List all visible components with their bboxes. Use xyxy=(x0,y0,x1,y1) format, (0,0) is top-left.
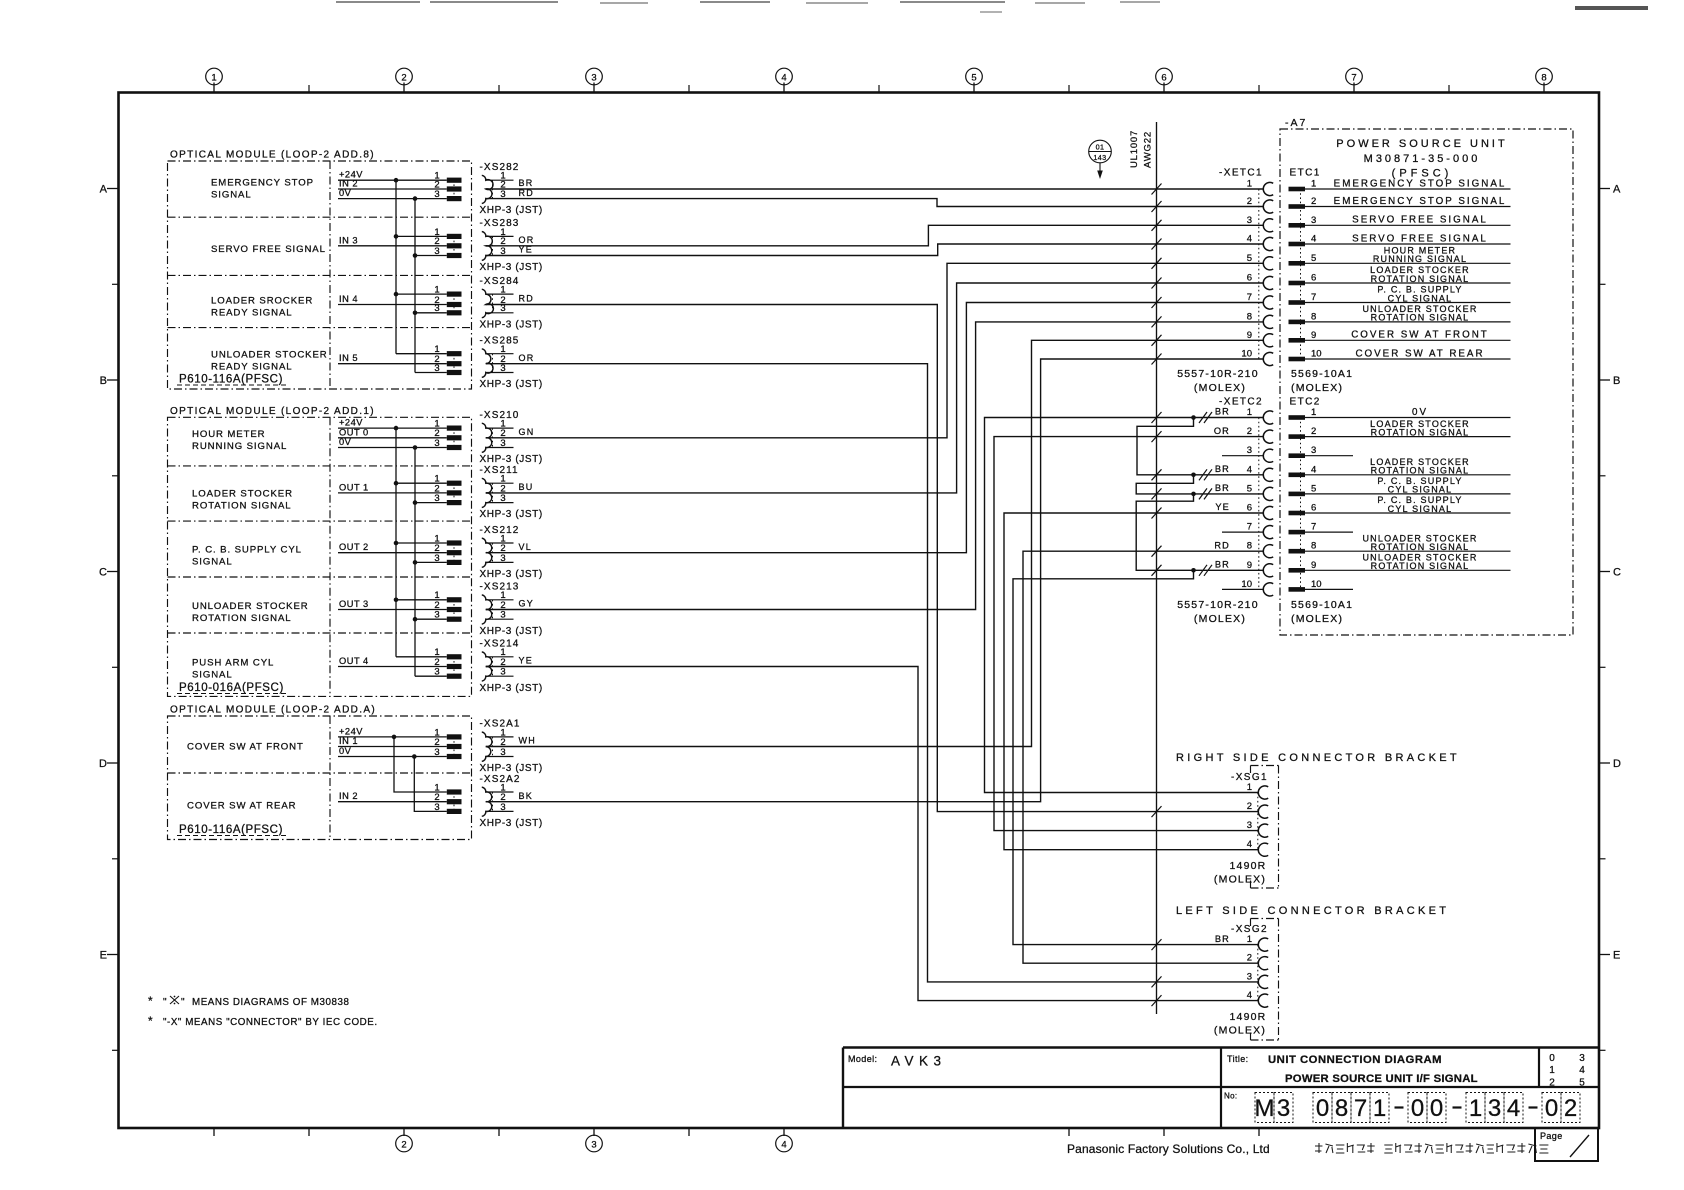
module box OPTICAL MODULE (LOOP-2 ADD.A) xyxy=(168,716,472,840)
stub pin 1 XS2A1 xyxy=(486,736,514,738)
stub pin 1 XS2A2 xyxy=(486,791,514,793)
wire GY XS213.2 to XETC1.8 xyxy=(486,322,1264,610)
stub pin 1 XS211 xyxy=(486,482,514,484)
title block frame xyxy=(843,1046,1599,1048)
svg-text:SIGNAL: SIGNAL xyxy=(211,189,252,200)
svg-text:UNLOADER STOCKER: UNLOADER STOCKER xyxy=(211,350,328,361)
module2 pin rects XS211 side xyxy=(447,481,462,486)
wire BR twisted pair XETC2.4 xyxy=(1137,418,1263,475)
svg-text:3: 3 xyxy=(1579,1053,1585,1064)
stub pin 1 XS282 xyxy=(486,179,514,181)
svg-text:OPTICAL MODULE (LOOP-2 ADD.1): OPTICAL MODULE (LOOP-2 ADD.1) xyxy=(170,406,375,417)
module1 pin rects XS285 side xyxy=(447,351,462,356)
wire XS211 pin3 feed xyxy=(415,502,447,504)
wire 0V module2 xyxy=(338,447,447,449)
svg-text:-A7: -A7 xyxy=(1285,117,1307,129)
svg-text:10: 10 xyxy=(1241,349,1252,360)
page reference symbol 01/143 xyxy=(1089,140,1112,163)
svg-text:(MOLEX): (MOLEX) xyxy=(1291,382,1343,394)
wire XS214 pin1 feed xyxy=(396,656,447,658)
svg-text:COVER SW AT REAR: COVER SW AT REAR xyxy=(187,801,296,812)
svg-text:8: 8 xyxy=(1247,541,1252,552)
svg-text:01: 01 xyxy=(1096,143,1105,152)
wire OUT 3 module2 xyxy=(338,609,447,611)
svg-text:XHP-3 (JST): XHP-3 (JST) xyxy=(480,509,543,520)
svg-text:2: 2 xyxy=(1311,426,1316,437)
svg-text:9: 9 xyxy=(1311,560,1316,571)
connector ETC2 signal lines xyxy=(1305,417,1511,419)
svg-text:ROTATION SIGNAL: ROTATION SIGNAL xyxy=(192,613,292,624)
svg-text:4: 4 xyxy=(1247,234,1252,245)
svg-text:1: 1 xyxy=(1311,179,1316,190)
svg-text:0: 0 xyxy=(1316,1095,1329,1122)
svg-text:4: 4 xyxy=(1579,1065,1585,1076)
wire WH XS2A1.2 to XETC1.9 xyxy=(486,340,1264,746)
svg-text:XHP-3 (JST): XHP-3 (JST) xyxy=(480,818,543,829)
svg-text:1: 1 xyxy=(211,72,216,83)
wire OUT 2 module2 xyxy=(338,552,447,554)
svg-text:(MOLEX): (MOLEX) xyxy=(1194,382,1246,394)
svg-text:RIGHT SIDE CONNECTOR BRACKE: RIGHT SIDE CONNECTOR BRACKET xyxy=(1176,752,1460,764)
svg-text:5557-10R-210: 5557-10R-210 xyxy=(1177,368,1259,380)
svg-text:LOADER STOCKER: LOADER STOCKER xyxy=(192,489,293,500)
svg-text:XHP-3 (JST): XHP-3 (JST) xyxy=(480,683,543,694)
wire GN XS210.2 to XETC1.5 xyxy=(486,263,1264,438)
wire BR twisted pair to XSG2.1 xyxy=(1013,570,1258,944)
svg-text:4: 4 xyxy=(1247,464,1252,475)
svg-text:4: 4 xyxy=(1247,839,1252,850)
svg-text:A: A xyxy=(1613,184,1621,196)
scan artifact top edge xyxy=(336,1,420,3)
cable crossing slash XSG1.2 xyxy=(1152,806,1162,817)
svg-text:9: 9 xyxy=(1247,330,1252,341)
stub pin 3 XS2A2 xyxy=(486,810,514,812)
wire YE XS283.3 to XETC1.4 xyxy=(486,244,1264,256)
wire XS213 pin1 feed xyxy=(396,599,447,601)
svg-text:6: 6 xyxy=(1247,273,1252,284)
svg-text:EMERGENCY STOP: EMERGENCY STOP xyxy=(211,178,314,189)
svg-text:VL: VL xyxy=(519,542,533,552)
svg-text:3: 3 xyxy=(434,747,439,758)
stub pin 3 XS284 xyxy=(486,312,514,314)
svg-text:0: 0 xyxy=(1545,1095,1558,1122)
svg-text:COVER SW AT REAR: COVER SW AT REAR xyxy=(1355,348,1484,359)
svg-text:5: 5 xyxy=(1579,1077,1585,1088)
wire RD XETC2.8 to XSG2.2 xyxy=(1023,551,1263,963)
svg-text:OR: OR xyxy=(519,353,535,363)
svg-text:1490R: 1490R xyxy=(1230,860,1267,872)
svg-text:EMERGENCY STOP SIGNAL: EMERGENCY STOP SIGNAL xyxy=(1334,178,1507,189)
0V rail module2 xyxy=(414,448,416,677)
bracket box XSG1 xyxy=(1251,765,1279,767)
svg-text:XHP-3 (JST): XHP-3 (JST) xyxy=(480,262,543,273)
wire RD XS282.3 to XETC1.2 xyxy=(486,199,1264,207)
svg-text:XHP-3 (JST): XHP-3 (JST) xyxy=(480,319,543,330)
svg-text:4: 4 xyxy=(1311,234,1316,245)
svg-text:3: 3 xyxy=(434,667,439,678)
svg-text:+24V: +24V xyxy=(339,418,363,428)
svg-text:(MOLEX): (MOLEX) xyxy=(1194,613,1246,625)
connector XSG2 contact arcs xyxy=(1258,938,1268,951)
wire XS284 pin3 feed xyxy=(415,312,447,314)
svg-text:3: 3 xyxy=(434,438,439,449)
svg-text:C: C xyxy=(1613,567,1621,579)
junction dots module2 xyxy=(394,426,399,431)
stub pin 3 XS214 xyxy=(486,675,514,677)
wire BR twisted pair XETC2.5 xyxy=(1136,475,1263,494)
wire IN 2 module1 xyxy=(338,188,447,190)
stub pin 3 XS285 xyxy=(486,372,514,374)
svg-text:CYL SIGNAL: CYL SIGNAL xyxy=(1388,293,1453,303)
svg-text:POWER SOURCE UNIT I/F SIGNAL: POWER SOURCE UNIT I/F SIGNAL xyxy=(1285,1073,1478,1085)
svg-text:3: 3 xyxy=(1247,445,1252,456)
svg-text:6: 6 xyxy=(1311,503,1316,514)
wire OUT 0 module2 xyxy=(338,437,447,439)
wire +24V module2 xyxy=(338,427,447,429)
svg-text:2: 2 xyxy=(401,72,406,83)
stub pin 1 XS212 xyxy=(486,542,514,544)
connector XETC2 contact arcs xyxy=(1263,411,1273,424)
wire OUT 4 module2 xyxy=(338,666,447,668)
svg-text:GY: GY xyxy=(519,599,535,609)
svg-text:5569-10A1: 5569-10A1 xyxy=(1291,599,1353,611)
0V rail module3 xyxy=(414,757,447,812)
svg-text:10: 10 xyxy=(1311,349,1322,360)
svg-text:3: 3 xyxy=(1311,445,1316,456)
top border ticks and zone numbers xyxy=(213,83,215,93)
module2 pin rects XS213 side xyxy=(447,597,462,602)
wire OR XS285.2 to XSG2.3 xyxy=(486,364,1259,982)
svg-text:SIGNAL: SIGNAL xyxy=(192,556,233,567)
svg-text:8: 8 xyxy=(1311,311,1316,322)
svg-text:1: 1 xyxy=(434,285,439,296)
svg-text:ROTATION SIGNAL: ROTATION SIGNAL xyxy=(1371,313,1470,323)
svg-text:2: 2 xyxy=(401,1139,406,1150)
power source unit box -A7 xyxy=(1280,129,1573,635)
svg-text:SERVO FREE SIGNAL: SERVO FREE SIGNAL xyxy=(1352,233,1488,244)
svg-text:ROTATION SIGNAL: ROTATION SIGNAL xyxy=(1371,427,1470,437)
svg-text:WH: WH xyxy=(519,736,537,746)
svg-text:1: 1 xyxy=(1247,179,1252,190)
svg-text:4: 4 xyxy=(781,1139,786,1150)
svg-text:P610-016A(PFSC): P610-016A(PFSC) xyxy=(179,682,284,694)
svg-text:1: 1 xyxy=(1373,1095,1386,1122)
svg-text:3: 3 xyxy=(591,72,596,83)
svg-text:-XETC1: -XETC1 xyxy=(1219,168,1263,179)
stub pin 3 XS2A1 xyxy=(486,756,514,758)
svg-text:YE: YE xyxy=(1215,502,1230,512)
svg-text:2: 2 xyxy=(1311,196,1316,207)
svg-text:8: 8 xyxy=(1335,1095,1348,1122)
svg-text:RUNNING SIGNAL: RUNNING SIGNAL xyxy=(1373,254,1467,264)
svg-text:2: 2 xyxy=(1247,953,1252,964)
svg-text:3: 3 xyxy=(1247,971,1252,982)
svg-text:OR: OR xyxy=(519,235,535,245)
stub pin 3 XS210 xyxy=(486,447,514,449)
svg-text:3: 3 xyxy=(434,303,439,314)
svg-text:0V: 0V xyxy=(1412,407,1428,418)
svg-text:M: M xyxy=(1255,1095,1275,1122)
wire IN 4 module1 xyxy=(338,304,447,306)
wire XS285 pin3 feed xyxy=(415,372,447,374)
svg-text:1: 1 xyxy=(1247,782,1252,793)
svg-text:BR: BR xyxy=(1215,407,1230,417)
svg-text:Model:: Model: xyxy=(848,1054,877,1064)
svg-text:ROTATION SIGNAL: ROTATION SIGNAL xyxy=(192,500,292,511)
svg-text:OUT 0: OUT 0 xyxy=(339,427,369,437)
svg-text:MEANS DIAGRAMS OF M30838: MEANS DIAGRAMS OF M30838 xyxy=(192,997,349,1008)
stub pin 1 XS210 xyxy=(486,427,514,429)
stub pin 1 XS283 xyxy=(486,235,514,237)
svg-text:HOUR METER: HOUR METER xyxy=(192,429,266,440)
connector XSG1 contact arcs xyxy=(1258,786,1268,799)
left border row letters xyxy=(107,188,119,190)
svg-text:0V: 0V xyxy=(339,437,352,447)
svg-text:D: D xyxy=(99,758,107,770)
0V rail module1 xyxy=(414,199,416,373)
svg-text:*: * xyxy=(148,1014,153,1028)
connector ETC1 pin contacts xyxy=(1289,187,1306,192)
svg-text:6: 6 xyxy=(1161,72,1166,83)
wire BR XETC2.1 to XSG1.1 xyxy=(985,418,1264,793)
svg-text:BR: BR xyxy=(1215,483,1230,493)
svg-text:10: 10 xyxy=(1241,579,1252,590)
cable line UL1007 xyxy=(1156,122,1158,1014)
stub pin 1 XS284 xyxy=(486,293,514,295)
svg-text:7: 7 xyxy=(1311,292,1316,303)
cable crossing slashes XETC2 xyxy=(1152,412,1162,423)
svg-text:Page: Page xyxy=(1540,1131,1563,1141)
svg-text:0: 0 xyxy=(1549,1053,1555,1064)
wire VL XS212.2 to XETC1.7 xyxy=(486,303,1264,553)
wire IN 5 module1 xyxy=(338,363,447,365)
svg-text:3: 3 xyxy=(1247,820,1252,831)
wire 0V module3 xyxy=(338,756,447,758)
wire IN 2 module3 xyxy=(338,801,447,803)
svg-text:BK: BK xyxy=(519,791,534,801)
svg-text:5: 5 xyxy=(971,72,976,83)
svg-text:2: 2 xyxy=(1247,196,1252,207)
svg-text:XHP-3 (JST): XHP-3 (JST) xyxy=(480,379,543,390)
wire XS285 pin1 feed xyxy=(396,353,447,355)
module3 pin rects XS2A2 side xyxy=(447,789,462,794)
page box xyxy=(1535,1128,1598,1161)
svg-text:3: 3 xyxy=(434,610,439,621)
svg-text:4: 4 xyxy=(1311,464,1316,475)
module1 pin rects XS284 side xyxy=(447,292,462,297)
wire 0V module1 xyxy=(338,198,447,200)
module1 pin rects XS283 side xyxy=(447,234,462,239)
svg-text:5557-10R-210: 5557-10R-210 xyxy=(1177,599,1259,611)
company name japanese (pseudo glyph strokes) xyxy=(1315,1143,1548,1153)
svg-text:SERVO FREE SIGNAL: SERVO FREE SIGNAL xyxy=(211,244,326,255)
svg-text:No:: No: xyxy=(1224,1092,1237,1101)
svg-text:3: 3 xyxy=(1488,1095,1501,1122)
+24V rail module1 xyxy=(395,180,397,354)
svg-text:OPTICAL MODULE (LOOP-2 ADD.8): OPTICAL MODULE (LOOP-2 ADD.8) xyxy=(170,150,375,161)
wire XS212 pin3 feed xyxy=(415,561,447,563)
module box OPTICAL MODULE (LOOP-2 ADD.1) xyxy=(168,417,472,696)
wire BU XS211.2 to XETC1.6 xyxy=(486,283,1264,493)
svg-text:(MOLEX): (MOLEX) xyxy=(1214,1025,1266,1037)
svg-text:B: B xyxy=(1613,375,1620,387)
svg-text:COVER SW AT FRONT: COVER SW AT FRONT xyxy=(1351,330,1489,341)
svg-text:ROTATION SIGNAL: ROTATION SIGNAL xyxy=(1371,561,1470,571)
wire OR XETC2.2 to XSG1.3 xyxy=(994,437,1263,831)
svg-text:RD: RD xyxy=(519,294,535,304)
svg-text:ROTATION SIGNAL: ROTATION SIGNAL xyxy=(1371,466,1470,476)
svg-text:IN 2: IN 2 xyxy=(339,791,358,801)
wire XS283 pin3 feed xyxy=(415,255,447,257)
drawing number dashes xyxy=(1395,1106,1404,1108)
svg-text:6: 6 xyxy=(1247,503,1252,514)
svg-text:BR: BR xyxy=(1215,464,1230,474)
svg-text:1: 1 xyxy=(1247,407,1252,418)
svg-text:OUT 1: OUT 1 xyxy=(339,482,369,492)
svg-text:7: 7 xyxy=(1311,522,1316,533)
svg-text:3: 3 xyxy=(434,553,439,564)
svg-text:C: C xyxy=(99,567,107,579)
svg-text:UNIT CONNECTION DIAGRAM: UNIT CONNECTION DIAGRAM xyxy=(1268,1054,1442,1066)
stub pin 3 XS212 xyxy=(486,561,514,563)
wire OUT 1 module2 xyxy=(338,492,447,494)
svg-text:7: 7 xyxy=(1247,292,1252,303)
svg-text:E: E xyxy=(1613,950,1620,962)
svg-text:7: 7 xyxy=(1351,72,1356,83)
svg-text:EMERGENCY STOP SIGNAL: EMERGENCY STOP SIGNAL xyxy=(1334,196,1507,207)
wire XS283 pin1 feed xyxy=(396,235,447,237)
svg-text:IN 5: IN 5 xyxy=(339,353,358,363)
svg-text:1490R: 1490R xyxy=(1230,1011,1267,1023)
wire YE XS214.2 to XSG2.4 xyxy=(486,667,1259,1001)
wire XS212 pin1 feed xyxy=(396,542,447,544)
connector ETC1 signal lines xyxy=(1305,188,1511,190)
+24V rail module2 xyxy=(395,428,397,657)
svg-text:BR: BR xyxy=(1215,560,1230,570)
border frame xyxy=(119,93,1600,1129)
wire RD XS284.2 to XSG1.2 xyxy=(486,305,1259,812)
wire IN 3 module1 xyxy=(338,245,447,247)
wire XS211 pin1 feed xyxy=(396,482,447,484)
svg-text:-XS211: -XS211 xyxy=(480,465,519,476)
svg-text:OUT 4: OUT 4 xyxy=(339,656,369,666)
junction dots module3 xyxy=(392,735,397,740)
wire +24V module3 xyxy=(338,736,447,738)
svg-text:2: 2 xyxy=(1247,426,1252,437)
svg-text:4: 4 xyxy=(1247,990,1252,1001)
svg-text:5: 5 xyxy=(1311,253,1316,264)
svg-text:IN 1: IN 1 xyxy=(339,736,358,746)
wire XS214 pin3 feed xyxy=(415,675,447,677)
svg-text:ETC1: ETC1 xyxy=(1290,168,1321,179)
svg-text:GN: GN xyxy=(519,427,535,437)
stub pin 3 XS211 xyxy=(486,502,514,504)
svg-text:(MOLEX): (MOLEX) xyxy=(1291,613,1343,625)
svg-text:"-X" MEANS "CONNECTOR" BY: "-X" MEANS "CONNECTOR" BY IEC CODE. xyxy=(163,1017,378,1028)
svg-text:SIGNAL: SIGNAL xyxy=(192,669,233,680)
module2 pin rects XS210 side xyxy=(447,426,462,431)
svg-text:(MOLEX): (MOLEX) xyxy=(1214,874,1266,886)
svg-text:2: 2 xyxy=(1564,1095,1577,1122)
svg-text:XHP-3 (JST): XHP-3 (JST) xyxy=(480,626,543,637)
wire +24V row1 module1 xyxy=(338,179,447,181)
svg-text:8: 8 xyxy=(1541,72,1546,83)
svg-text:LOADER SROCKER: LOADER SROCKER xyxy=(211,296,313,307)
svg-text:ETC2: ETC2 xyxy=(1290,397,1321,408)
svg-text:A: A xyxy=(100,184,108,196)
svg-text:RD: RD xyxy=(1214,540,1230,550)
svg-text:5569-10A1: 5569-10A1 xyxy=(1291,368,1353,380)
svg-text:UNLOADER STOCKER: UNLOADER STOCKER xyxy=(192,601,309,612)
svg-text:AVK3: AVK3 xyxy=(891,1054,947,1069)
page reference arrow xyxy=(1099,163,1101,174)
svg-text:0V: 0V xyxy=(339,188,352,198)
svg-text:3: 3 xyxy=(434,189,439,200)
svg-text:3: 3 xyxy=(434,246,439,257)
stub pin 1 XS213 xyxy=(486,599,514,601)
svg-text:3: 3 xyxy=(434,493,439,504)
wire BR twisted pair XETC2.9 xyxy=(1136,494,1263,570)
module1 pin rects XS282 side xyxy=(447,178,462,183)
stub pin 3 XETC2 xyxy=(1222,455,1263,457)
page slash xyxy=(1570,1135,1589,1157)
svg-text:OPTICAL MODULE (LOOP-2 ADD.A): OPTICAL MODULE (LOOP-2 ADD.A) xyxy=(170,705,376,716)
svg-text:9: 9 xyxy=(1311,330,1316,341)
connector XETC1 contact arcs xyxy=(1263,182,1273,195)
svg-text:D: D xyxy=(1613,758,1621,770)
svg-text:1: 1 xyxy=(1469,1095,1482,1122)
stub pin 1 XS214 xyxy=(486,656,514,658)
svg-text:3: 3 xyxy=(434,802,439,813)
bottom border ticks and zone numbers xyxy=(213,1128,215,1136)
svg-text:1: 1 xyxy=(1311,407,1316,418)
svg-text:*: * xyxy=(148,994,153,1008)
svg-text:Title:: Title: xyxy=(1227,1054,1249,1064)
bracket box XSG2 xyxy=(1251,918,1279,920)
svg-text:P610-116A(PFSC): P610-116A(PFSC) xyxy=(179,374,283,386)
wire YE XETC2.6 to XSG1.4 xyxy=(1004,513,1263,850)
cable crossing slashes XETC1 xyxy=(1152,184,1162,195)
svg-text:3: 3 xyxy=(434,363,439,374)
svg-text:0V: 0V xyxy=(339,746,352,756)
svg-text:COVER SW AT FRONT: COVER SW AT FRONT xyxy=(187,742,304,753)
+24V rail module3 xyxy=(394,737,447,792)
stub pin 1 XS285 xyxy=(486,353,514,355)
svg-text:": " xyxy=(181,997,185,1008)
module2 pin rects XS212 side xyxy=(447,540,462,545)
svg-text:E: E xyxy=(100,950,107,962)
svg-text:ROTATION SIGNAL: ROTATION SIGNAL xyxy=(1371,274,1470,284)
svg-text:3: 3 xyxy=(591,1139,596,1150)
svg-text:P610-116A(PFSC): P610-116A(PFSC) xyxy=(179,824,283,836)
svg-text:3: 3 xyxy=(1277,1095,1290,1122)
svg-text:7: 7 xyxy=(1354,1095,1367,1122)
svg-text:7: 7 xyxy=(1247,522,1252,533)
svg-text:P. C. B. SUPPLY CYL: P. C. B. SUPPLY CYL xyxy=(192,545,302,556)
wire XS284 pin1 feed xyxy=(396,293,447,295)
svg-text:IN 4: IN 4 xyxy=(339,294,358,304)
svg-text:XHP-3 (JST): XHP-3 (JST) xyxy=(480,205,543,216)
svg-text:6: 6 xyxy=(1311,273,1316,284)
svg-text:SERVO FREE SIGNAL: SERVO FREE SIGNAL xyxy=(1352,215,1488,226)
svg-text:10: 10 xyxy=(1311,579,1322,590)
svg-text:BU: BU xyxy=(519,482,534,492)
cable crossing slashes XSG2 xyxy=(1152,939,1162,950)
svg-text:OUT 2: OUT 2 xyxy=(339,542,369,552)
twisted pair junction dots XETC2 xyxy=(1191,415,1196,420)
svg-text:OUT 3: OUT 3 xyxy=(339,599,369,609)
svg-text:": " xyxy=(163,997,167,1008)
